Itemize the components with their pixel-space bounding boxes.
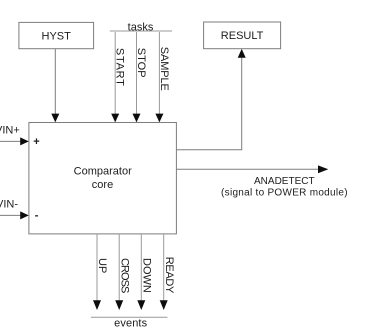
svg-text:READY: READY <box>163 257 175 294</box>
label ANADETECT (signal to POWER module) <box>221 176 348 198</box>
svg-text:SAMPLE: SAMPLE <box>158 47 170 91</box>
wire task SAMPLE <box>155 32 170 122</box>
svg-text:VIN-: VIN- <box>0 199 18 211</box>
wire task STOP <box>133 32 148 122</box>
wire task START <box>111 32 126 122</box>
svg-text:(signal to POWER module): (signal to POWER module) <box>221 187 348 198</box>
svg-text:Comparator: Comparator <box>74 166 132 178</box>
svg-text:CROSS: CROSS <box>118 258 130 293</box>
svg-text:core: core <box>92 179 113 191</box>
block comparator core U1 <box>29 123 177 234</box>
svg-text:VIN+: VIN+ <box>0 125 20 137</box>
svg-text:UP: UP <box>96 258 108 273</box>
svg-text:events: events <box>114 317 148 329</box>
wire comparator core to RESULT <box>176 49 245 150</box>
svg-text:RESULT: RESULT <box>221 30 264 42</box>
wire event READY <box>160 234 175 310</box>
svg-text:STOP: STOP <box>135 48 147 78</box>
block HYST <box>19 22 94 48</box>
svg-text:ANADETECT: ANADETECT <box>254 176 315 187</box>
svg-text:DOWN: DOWN <box>141 258 153 293</box>
svg-text:tasks: tasks <box>128 21 154 33</box>
wire event UP <box>93 234 108 310</box>
svg-text:HYST: HYST <box>42 31 72 43</box>
label tasks with underline <box>110 21 172 33</box>
wire HYST to comparator core <box>51 49 59 123</box>
wire output ANADETECT <box>176 165 328 173</box>
wire event CROSS <box>115 234 130 310</box>
block RESULT <box>204 22 281 49</box>
wire input VIN- <box>0 199 29 220</box>
svg-text:START: START <box>114 48 126 86</box>
svg-text:-: - <box>35 210 39 222</box>
label events with overline <box>91 317 167 329</box>
wire event DOWN <box>137 234 152 310</box>
wire input VIN+ <box>0 125 29 146</box>
svg-text:+: + <box>33 136 39 148</box>
